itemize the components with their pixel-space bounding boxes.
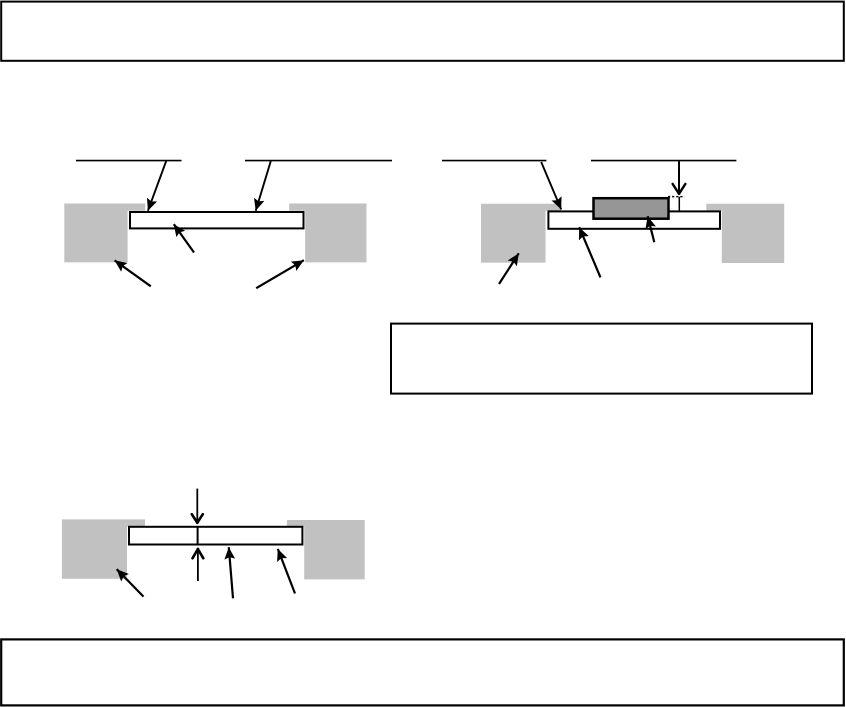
bottom note box xyxy=(1,639,844,705)
open arrowhead barb left xyxy=(673,184,679,194)
arrow to dark component B xyxy=(648,216,655,242)
down dimension arrow C stem xyxy=(196,489,198,523)
label rule line B1 xyxy=(442,160,546,162)
arrow to left block A xyxy=(115,260,151,286)
arrow to bar underside A xyxy=(174,224,194,252)
left gray block B xyxy=(481,204,561,263)
middle note box xyxy=(391,324,812,394)
die bar A xyxy=(130,212,304,228)
left gray block C xyxy=(62,519,145,578)
arrow to bar underside B xyxy=(579,227,600,277)
vertical dimension arrow stem B xyxy=(678,161,680,194)
dark die component B xyxy=(594,198,669,219)
arrow to right block A xyxy=(256,260,304,288)
label rule line A2 xyxy=(245,160,392,162)
die bar C xyxy=(129,527,302,545)
down arrow barb right xyxy=(197,514,203,523)
arrow to bar underside C right xyxy=(278,549,295,594)
dimension extension vertical line B xyxy=(678,197,680,211)
left gray block A xyxy=(64,204,145,263)
right gray block C xyxy=(287,520,365,579)
label rule line A1 xyxy=(76,160,182,162)
arrow to left block C xyxy=(117,569,144,596)
label rule line B2 xyxy=(591,160,736,162)
dashed extension line B xyxy=(668,196,685,198)
down arrow barb left xyxy=(192,514,198,523)
right gray block B xyxy=(706,204,784,263)
die bar B xyxy=(548,211,720,228)
top header box xyxy=(1,2,844,61)
open arrowhead barb right xyxy=(679,184,685,194)
arrow to bar underside C middle xyxy=(229,547,233,598)
up dimension arrow C stem xyxy=(197,549,199,581)
bar center line C xyxy=(197,526,199,546)
leader arrow A2 xyxy=(256,161,271,211)
leader arrow A1 xyxy=(148,161,166,211)
arrow to left block B xyxy=(499,253,519,284)
right gray block A xyxy=(289,204,366,263)
up arrow barb right xyxy=(198,549,203,558)
up arrow barb left xyxy=(193,549,198,558)
leader arrow B1 xyxy=(541,162,561,209)
